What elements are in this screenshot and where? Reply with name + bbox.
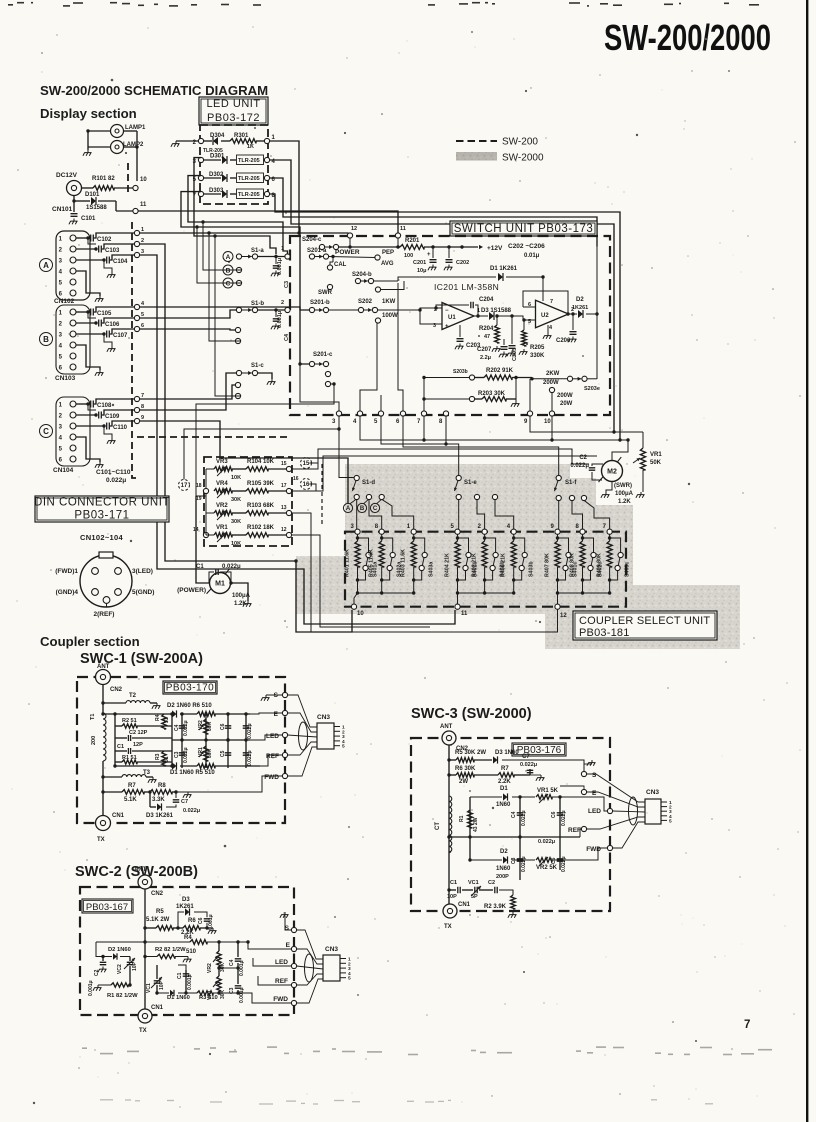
capacitor C102 [76, 237, 88, 239]
capacitor C6 0.022u swc3 [559, 797, 561, 837]
svg-text:REF: REF [568, 827, 581, 834]
wire lamps right to rail [124, 130, 138, 132]
svg-text:9: 9 [141, 415, 144, 421]
svg-text:2: 2 [59, 322, 63, 328]
svg-text:M2: M2 [607, 469, 617, 476]
terminal display pin 5 [134, 315, 139, 320]
wire to E swc2 [248, 942, 291, 949]
capacitor C108 [76, 403, 88, 405]
capacitor C6 0.001u [204, 919, 211, 921]
wire R202 R203 junction [515, 378, 517, 402]
wires SWC-3 terminals to CN3 [587, 774, 645, 802]
wire bank group3 bottom rail [558, 592, 610, 594]
svg-text:C4: C4 [174, 724, 180, 731]
capacitor C203 [459, 325, 461, 337]
svg-text:CN102~104: CN102~104 [80, 533, 123, 542]
wire VR pin13 to coupler pin12 [292, 513, 558, 632]
svg-text:B: B [360, 506, 365, 512]
svg-text:CN1: CN1 [112, 813, 125, 819]
svg-text:C3: C3 [174, 751, 180, 758]
svg-text:10K: 10K [231, 541, 241, 547]
ground M1 [247, 601, 249, 604]
svg-text:11: 11 [461, 611, 468, 617]
svg-text:PB03-181: PB03-181 [579, 627, 630, 639]
capacitor C1 0.001u [185, 970, 187, 993]
svg-text:Coupler section: Coupler section [40, 634, 140, 649]
ground C3 [275, 271, 277, 274]
svg-text:3.3K: 3.3K [152, 797, 165, 803]
svg-text:CN3: CN3 [325, 946, 338, 953]
svg-text:C105: C105 [97, 311, 112, 317]
wire to REF swc2 [258, 976, 291, 985]
wire circled 16 stub [309, 484, 316, 491]
svg-text:20W: 20W [560, 401, 573, 407]
wire circled 15 stub [309, 462, 318, 464]
svg-text:3: 3 [59, 425, 63, 431]
svg-text:0.022μ: 0.022μ [520, 762, 537, 768]
PB03-167 label box [82, 899, 133, 913]
ground C101 [73, 219, 75, 222]
svg-text:R7: R7 [128, 783, 136, 789]
terminal switch unit pin 1 [285, 254, 290, 259]
capacitor C3 0.001u [237, 968, 239, 984]
wire switch pin4 to M2 run [360, 416, 628, 440]
scan edge right vertical line [806, 0, 808, 1122]
svg-text:D302: D302 [209, 172, 224, 178]
switch S403b [514, 538, 525, 553]
svg-text:S1-f: S1-f [565, 480, 577, 486]
svg-text:COUPLER SELECT UNIT: COUPLER SELECT UNIT [579, 615, 710, 627]
terminal display pin 4 [134, 304, 139, 309]
svg-text:4: 4 [59, 344, 63, 350]
svg-text:DIN CONNECTOR UNIT: DIN CONNECTOR UNIT [34, 496, 170, 508]
capacitor C101 [73, 201, 75, 212]
CN3 pins 1-5 swc2 [340, 958, 346, 960]
svg-text:330K: 330K [530, 353, 545, 359]
trimmer VR2 30K [205, 714, 207, 740]
svg-text:R407 80K: R407 80K [545, 553, 551, 577]
svg-text:R2 3.9K: R2 3.9K [484, 904, 507, 910]
svg-text:C6: C6 [551, 811, 557, 818]
svg-text:30K: 30K [231, 497, 241, 503]
wire S204-b second contact [380, 281, 404, 290]
svg-text:100μA: 100μA [232, 593, 251, 599]
switch unit board outline [290, 236, 610, 415]
ground R2 swc3 [512, 912, 514, 915]
svg-text:50K: 50K [650, 460, 662, 466]
svg-text:200W: 200W [557, 393, 573, 399]
svg-text:C: C [43, 427, 49, 436]
svg-text:510: 510 [186, 949, 197, 955]
svg-text:A: A [43, 261, 49, 270]
lamp LAMP1 [111, 125, 124, 138]
wire U2 pin6 feedback [523, 306, 536, 308]
svg-text:C3: C3 [284, 281, 290, 288]
svg-text:5: 5 [669, 818, 672, 824]
svg-text:1: 1 [281, 246, 284, 252]
wire VR pin15 up to C2 run [292, 449, 589, 469]
node circled C d [370, 503, 379, 512]
ground M2 [605, 492, 607, 495]
svg-text:R202 91K: R202 91K [486, 368, 514, 374]
svg-text:1N60: 1N60 [496, 866, 511, 872]
svg-text:0.022μ: 0.022μ [570, 463, 589, 469]
ground caps B [88, 312, 96, 318]
svg-text:7: 7 [550, 299, 553, 305]
capacitor C205 [511, 316, 513, 344]
DIN pin 1 FWD [92, 568, 99, 575]
svg-text:VC1: VC1 [468, 880, 479, 886]
svg-text:S201-c: S201-c [313, 352, 333, 358]
svg-text:R205: R205 [530, 345, 545, 351]
wire LED pin6 long run right into switch unit rail [270, 178, 597, 247]
terminal switch unit bottom pin 6 [400, 411, 405, 416]
resistor R1 43 2W vertical [469, 797, 471, 860]
svg-text:C: C [373, 506, 378, 512]
label circled B [40, 333, 53, 346]
SWC-1 board outline [77, 677, 285, 823]
scan noise top edge [8, 3, 759, 6]
svg-text:D3: D3 [182, 897, 190, 903]
terminal display pin 7 [134, 396, 139, 401]
wire display pin3 to coupler select pin11 [140, 255, 455, 624]
svg-text:S203e: S203e [584, 386, 600, 392]
terminal LED swc3 [607, 808, 612, 813]
svg-text:R404 21K: R404 21K [445, 553, 451, 577]
svg-text:TLR-205: TLR-205 [238, 176, 260, 182]
terminal coupler select bottom pin 11 [455, 604, 460, 609]
resistor R406 21K [513, 534, 515, 541]
capacitor 0.022u right top [245, 714, 247, 740]
svg-text:17: 17 [281, 483, 287, 489]
ground CN104 [76, 437, 100, 462]
wire LED pin8 long run right to M2 feed [270, 194, 620, 440]
svg-text:VR1: VR1 [198, 747, 204, 757]
svg-text:AVG: AVG [381, 261, 394, 267]
svg-text:1K: 1K [247, 144, 254, 150]
wire display pin11 long run to switch unit pin11 [138, 211, 398, 233]
ground T2 [156, 703, 158, 706]
svg-text:C1: C1 [117, 744, 124, 750]
svg-text:3(LED): 3(LED) [132, 568, 153, 575]
svg-text:TLR-205: TLR-205 [238, 192, 260, 198]
svg-text:CN3: CN3 [317, 714, 330, 721]
LED unit board outline PB03-172 [200, 125, 268, 204]
svg-text:100μA: 100μA [615, 491, 634, 497]
terminal coupler select top pin 8 [580, 529, 585, 534]
terminal coupler select top pin 8 [379, 529, 384, 534]
trimmer VR1 30K [217, 976, 221, 991]
node circled 15 dashed [301, 458, 312, 469]
connector CN103 body B [56, 305, 90, 374]
svg-text:200W: 200W [543, 380, 559, 386]
svg-text:0.022μ: 0.022μ [521, 856, 527, 872]
wire top rail to E [250, 713, 282, 714]
svg-text:0.022μ: 0.022μ [106, 477, 126, 484]
terminal 200W 20W contact [549, 387, 554, 392]
terminal coupler select top pin 5 [455, 529, 460, 534]
svg-text:D2: D2 [500, 849, 508, 855]
ground C4 [275, 324, 277, 327]
svg-text:12: 12 [281, 527, 287, 533]
svg-text:CN102: CN102 [54, 298, 75, 305]
svg-text:VR2: VR2 [216, 503, 228, 509]
wire circled letters links [350, 500, 356, 504]
switch S402a [382, 538, 393, 553]
svg-text:S1-a: S1-a [251, 248, 264, 254]
svg-text:C1: C1 [196, 564, 204, 570]
svg-text:0.001μ: 0.001μ [239, 960, 245, 976]
node circled A d [343, 503, 352, 512]
wire LED pin4 long run right to VR1 feed [270, 160, 614, 432]
terminal coupler select top pin 9 [555, 529, 560, 534]
svg-text:D3 1N60: D3 1N60 [495, 750, 519, 756]
svg-text:PB03-171: PB03-171 [74, 509, 129, 521]
svg-text:3: 3 [332, 419, 336, 425]
ground LED pin2 [176, 140, 199, 142]
wire M2 to ground [606, 482, 612, 493]
svg-text:(SWR): (SWR) [614, 483, 632, 489]
ground R203 [515, 401, 517, 404]
switch S401c [558, 538, 569, 553]
connector CN1 TX swc2 [138, 1009, 152, 1023]
svg-text:VR2: VR2 [207, 963, 213, 973]
terminal switch unit bottom pin 7 [421, 411, 426, 416]
svg-text:SW-200: SW-200 [502, 137, 538, 148]
svg-text:R408 80K: R408 80K [570, 553, 576, 577]
svg-text:10P: 10P [447, 894, 457, 900]
capacitor C3 0.022u swc3 [519, 837, 521, 880]
capacitor C4 0.022u swc3 [519, 797, 521, 837]
svg-text:R405 11.6K: R405 11.6K [369, 549, 375, 577]
capacitor C104 [76, 259, 104, 261]
svg-text:C4: C4 [284, 333, 290, 341]
wire display pin9 to coupler S1-d A contact [140, 421, 348, 503]
svg-text:1: 1 [59, 403, 63, 409]
terminal display pin 3 [134, 252, 139, 257]
svg-text:5: 5 [59, 281, 63, 287]
svg-text:0.022μ: 0.022μ [247, 723, 253, 739]
svg-text:S403a: S403a [429, 562, 435, 577]
svg-text:30K: 30K [207, 748, 213, 758]
ground R1 [97, 985, 99, 988]
wire to LED swc2 [253, 958, 291, 966]
svg-text:C106: C106 [105, 322, 120, 328]
svg-text:E: E [592, 790, 597, 797]
switch S401b [458, 538, 469, 553]
svg-text:TX: TX [444, 924, 452, 930]
PB03-170 label box [163, 681, 217, 694]
svg-text:12: 12 [351, 226, 357, 232]
capacitor C106 [76, 322, 96, 324]
capacitor C6 [227, 714, 229, 740]
svg-text:12: 12 [560, 613, 567, 619]
wire node 17 feed [184, 429, 339, 479]
terminal REF swc3 [581, 826, 586, 831]
trimmer VR1 30K [205, 740, 207, 768]
svg-text:ANT: ANT [440, 724, 453, 730]
terminal LED pin 1 [264, 138, 269, 143]
DIN CONNECTOR UNIT PB03-171 label box [35, 496, 169, 522]
svg-text:1: 1 [59, 311, 63, 317]
ground caps A [88, 238, 96, 244]
node circled 16 dashed [301, 479, 312, 490]
svg-text:1: 1 [141, 227, 144, 233]
svg-text:R204: R204 [479, 326, 494, 332]
wire LED pin3 corridor down [194, 158, 276, 255]
svg-text:15: 15 [281, 461, 287, 467]
svg-text:5.1K: 5.1K [124, 797, 137, 803]
svg-text:0.001μ: 0.001μ [277, 258, 283, 275]
svg-text:CN3: CN3 [646, 789, 659, 796]
svg-text:Display section: Display section [40, 106, 137, 121]
svg-text:C110: C110 [113, 425, 128, 431]
lamp LAMP2 [111, 141, 124, 154]
wire display pin4 to S201-b [140, 307, 310, 310]
capacitor C3 0.001u [275, 257, 277, 265]
svg-text:−: − [445, 308, 449, 314]
coil CT [449, 796, 452, 852]
svg-text:R402 21K: R402 21K [472, 553, 478, 577]
ground CN102 [76, 271, 100, 296]
wire LED pin5 corridor down [188, 176, 288, 254]
svg-text:TLR-205: TLR-205 [238, 158, 260, 164]
svg-text:R102 18K: R102 18K [247, 525, 275, 531]
capacitor C4 0.001u [275, 310, 277, 317]
ground VR1 side [640, 492, 642, 495]
terminal coupler select top pin 3 [355, 529, 360, 534]
resistor R409 80K [609, 534, 611, 541]
op-amp U1 [442, 303, 474, 330]
svg-text:R3 510: R3 510 [199, 995, 218, 1001]
wire switch pin6 to S1-f feed [403, 416, 559, 475]
svg-text:C7: C7 [522, 754, 530, 760]
svg-text:43 2W: 43 2W [473, 817, 479, 832]
svg-text:M1: M1 [215, 581, 225, 588]
svg-text:CN2: CN2 [110, 687, 123, 693]
svg-text:0.001μ: 0.001μ [187, 974, 193, 990]
svg-text:S204-c: S204-c [302, 237, 322, 243]
svg-text:5: 5 [348, 976, 351, 982]
svg-text:13: 13 [281, 505, 287, 511]
terminal switch unit bottom pin 3 [336, 411, 341, 416]
svg-text:4: 4 [59, 270, 63, 276]
svg-text:47: 47 [484, 334, 490, 340]
svg-text:VR3: VR3 [216, 459, 228, 465]
svg-text:S1-e: S1-e [464, 480, 477, 486]
svg-text:12P: 12P [133, 742, 143, 748]
svg-text:R2 82 1/2W: R2 82 1/2W [155, 947, 186, 953]
svg-text:D101: D101 [85, 192, 100, 198]
terminal PEP AVG [328, 257, 375, 258]
wire display pin2 to coupler select pin10 [140, 244, 352, 632]
svg-text:R3: R3 [155, 753, 161, 760]
svg-text:U1: U1 [448, 315, 456, 321]
svg-text:1K261: 1K261 [572, 305, 588, 311]
terminal display pin 2 [134, 241, 139, 246]
svg-text:18: 18 [196, 483, 202, 489]
selector S1-e contacts [456, 494, 461, 499]
trimmer VC2 10P [129, 957, 131, 962]
capacitor C3 0.022u [181, 740, 183, 768]
svg-text:CN104: CN104 [53, 467, 74, 474]
svg-text:C3: C3 [511, 857, 517, 864]
switch S1-a [223, 252, 233, 262]
svg-text:R6: R6 [188, 918, 196, 924]
wire S1-e contacts to pins [458, 499, 460, 529]
display unit dashed boundary [127, 163, 129, 196]
wire display rail vertical [136, 131, 138, 181]
svg-text:C101~C110: C101~C110 [96, 469, 131, 476]
svg-text:FWD: FWD [273, 996, 288, 1003]
svg-text:R1 82 1/2W: R1 82 1/2W [107, 993, 138, 999]
wire VR pin19 down to M1 [196, 495, 206, 497]
svg-text:4: 4 [549, 325, 553, 331]
svg-text:S1-d: S1-d [362, 480, 375, 486]
ground U2 pin4 [547, 325, 549, 333]
svg-text:C2: C2 [488, 880, 495, 886]
svg-text:LED: LED [266, 733, 279, 740]
wire D1 to U2 pin7 [542, 277, 544, 301]
svg-text:30K: 30K [220, 989, 226, 999]
svg-text:3: 3 [141, 249, 144, 255]
wire S1-a B contact up to corridor [203, 222, 241, 270]
svg-text:T2: T2 [129, 693, 137, 699]
svg-text:3: 3 [59, 333, 63, 339]
SWC-3 board outline [411, 738, 610, 911]
wire S1-c to ground [257, 373, 272, 379]
wire mid rail to LED [250, 735, 282, 740]
svg-text:17: 17 [181, 483, 188, 489]
svg-text:CN1: CN1 [458, 902, 471, 908]
terminal switch pin 11 [395, 233, 400, 238]
switch S402c [583, 538, 594, 553]
svg-text:D1: D1 [500, 786, 508, 792]
svg-text:10P: 10P [132, 961, 138, 971]
terminal FWD swc3 [607, 845, 612, 850]
svg-text:E: E [274, 711, 279, 718]
svg-text:C2: C2 [94, 969, 100, 976]
wire S1-c contact up to corridor [215, 236, 240, 396]
svg-text:R403 11.6K: R403 11.6K [401, 549, 407, 577]
svg-text:C107: C107 [113, 333, 128, 339]
svg-text:CN101: CN101 [52, 206, 73, 213]
svg-text:C202: C202 [456, 260, 469, 266]
svg-text:+: + [445, 324, 449, 330]
wire M2 feed down [612, 440, 628, 460]
svg-text:REF: REF [275, 978, 288, 985]
wire display pin6 to S1-b second contact [140, 329, 236, 330]
terminal SWR [327, 284, 332, 289]
svg-text:30K: 30K [231, 519, 241, 525]
svg-text:R409 80K: R409 80K [597, 553, 603, 577]
capacitor C107 [76, 333, 104, 335]
svg-text:FWD: FWD [264, 774, 279, 781]
svg-text:10: 10 [544, 419, 551, 425]
DIN pin 4 GND [92, 589, 99, 596]
terminal switch unit bottom pin 5 [378, 411, 383, 416]
trimmer VC1 10P [156, 965, 158, 979]
svg-text:C2: C2 [579, 455, 587, 461]
svg-text:5(GND): 5(GND) [132, 589, 154, 596]
diode D301 TLR-205 [198, 157, 203, 162]
svg-text:2.2μ: 2.2μ [480, 355, 491, 361]
svg-text:SWR: SWR [318, 290, 333, 296]
svg-text:10: 10 [140, 177, 147, 183]
wire mid rail [172, 739, 250, 741]
trimmer VR2 30K [218, 942, 220, 951]
terminal coupler select top pin 1 [411, 529, 416, 534]
